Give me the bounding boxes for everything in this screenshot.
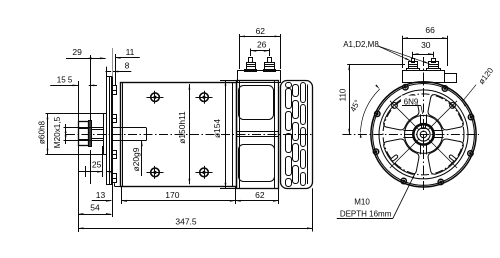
svg-text:45°: 45° <box>348 98 362 113</box>
svg-text:M20x1,5: M20x1,5 <box>53 116 62 148</box>
svg-text:A1,D2,M8: A1,D2,M8 <box>343 40 379 49</box>
svg-text:6N9: 6N9 <box>404 97 419 106</box>
svg-text:ø120: ø120 <box>477 66 496 86</box>
svg-text:347.5: 347.5 <box>175 217 197 227</box>
svg-text:26: 26 <box>257 39 267 49</box>
svg-text:170: 170 <box>165 190 179 200</box>
svg-text:M10: M10 <box>354 197 370 206</box>
svg-text:62: 62 <box>255 190 265 200</box>
svg-text:ø60h8: ø60h8 <box>38 120 47 144</box>
svg-text:110: 110 <box>338 88 347 101</box>
svg-text:54: 54 <box>90 203 100 213</box>
svg-text:62: 62 <box>256 26 266 36</box>
svg-text:15 5: 15 5 <box>57 75 73 84</box>
svg-text:29: 29 <box>72 47 82 57</box>
svg-text:DEPTH 16mm: DEPTH 16mm <box>340 210 392 219</box>
svg-text:ø154: ø154 <box>212 119 222 138</box>
svg-text:13: 13 <box>96 190 106 200</box>
svg-text:30: 30 <box>421 40 431 50</box>
svg-text:8: 8 <box>125 60 130 70</box>
svg-text:25: 25 <box>92 160 102 170</box>
svg-text:ø150h11: ø150h11 <box>177 111 187 144</box>
svg-text:ø20g9: ø20g9 <box>131 147 141 171</box>
svg-text:11: 11 <box>126 47 135 57</box>
svg-text:66: 66 <box>425 25 435 35</box>
